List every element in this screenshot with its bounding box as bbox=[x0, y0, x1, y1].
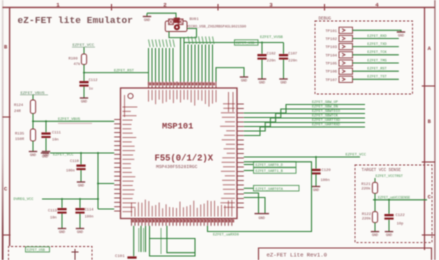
ground under C120 bbox=[312, 186, 320, 188]
wire C122 to ground bbox=[388, 220, 390, 232]
svg-text:1: 1 bbox=[56, 2, 60, 9]
wire to net label EZFET_UART0_D bbox=[244, 164, 254, 166]
wire to capacitor C102 bbox=[261, 43, 263, 54]
svg-text:B: B bbox=[428, 119, 432, 125]
svg-text:EZFET_USB: EZFET_USB bbox=[27, 248, 45, 252]
svg-text:A: A bbox=[428, 46, 432, 52]
svg-text:TP105: TP105 bbox=[325, 63, 337, 67]
svg-text:EZFET_UART0TA: EZFET_UART0TA bbox=[256, 188, 284, 192]
svg-text:EZFET_TMS: EZFET_TMS bbox=[367, 59, 386, 63]
capacitor C120 bbox=[311, 169, 320, 171]
wire VBUS to R135 bbox=[32, 121, 34, 130]
svg-text:GND: GND bbox=[398, 33, 404, 37]
ground under C102 bbox=[258, 78, 266, 80]
svg-text:220k: 220k bbox=[361, 186, 371, 191]
svg-text:EZFET_RXD: EZFET_RXD bbox=[367, 35, 386, 39]
wire C112 to ground bbox=[83, 87, 85, 98]
ground bottom-right of MCU bbox=[255, 213, 270, 215]
wire to capacitor C107 bbox=[283, 43, 285, 54]
svg-text:EZFET_SBWTCK: EZFET_SBWTCK bbox=[312, 115, 339, 119]
wire stub down x166 bbox=[167, 226, 195, 253]
svg-text:TP107: TP107 bbox=[325, 79, 337, 83]
sheet frame inner left line bbox=[9, 7, 11, 246]
ground under C111 bbox=[42, 151, 50, 153]
capacitor C110 bbox=[57, 208, 66, 210]
resistor R100 bbox=[81, 54, 86, 65]
svg-text:MSP430F5528IRGC: MSP430F5528IRGC bbox=[156, 164, 198, 170]
svg-text:3: 3 bbox=[269, 2, 273, 9]
wire to capacitor C101 bbox=[133, 226, 135, 256]
svg-text:C107: C107 bbox=[288, 53, 297, 57]
svg-text:EZFET_VCC: EZFET_VCC bbox=[53, 153, 74, 157]
svg-text:R121: R121 bbox=[361, 183, 371, 187]
wire to net label EZFET_UART1_B bbox=[244, 170, 254, 172]
wire net EZFET_USB horizontal bbox=[184, 42, 284, 44]
svg-text:GND: GND bbox=[81, 99, 87, 103]
svg-text:TP106: TP106 bbox=[325, 71, 337, 75]
wire R100 to node bbox=[83, 65, 85, 81]
wire bundle group1 USB data nets bbox=[149, 40, 175, 82]
resistor R135 bbox=[30, 129, 35, 141]
svg-text:EZFET_VBUS: EZFET_VBUS bbox=[58, 118, 81, 122]
svg-text:R135: R135 bbox=[15, 133, 25, 137]
svg-text:C113: C113 bbox=[48, 210, 57, 214]
small note text under VBUS wire bbox=[58, 122, 92, 124]
wire loop to lower component bbox=[150, 226, 196, 256]
svg-text:C: C bbox=[4, 187, 8, 193]
wire net EZFET_SBW_UP bbox=[244, 105, 365, 114]
wire VCC vertical bus x98 bbox=[97, 153, 99, 209]
capacitor C107 bbox=[279, 54, 288, 56]
frame row tick left B-C bbox=[3, 116, 11, 118]
frame row tick right A-B bbox=[422, 85, 435, 87]
usb connector BU01 bbox=[165, 18, 187, 32]
svg-text:C114: C114 bbox=[85, 209, 95, 213]
svg-text:TP101: TP101 bbox=[325, 30, 337, 34]
svg-text:C: C bbox=[428, 195, 432, 201]
svg-text:eZ-FET Lite Rev1.0: eZ-FET Lite Rev1.0 bbox=[267, 252, 328, 259]
wire C109 to ground bbox=[80, 170, 82, 182]
svg-text:EZFET_VCC: EZFET_VCC bbox=[346, 154, 367, 158]
wire C111 to ground bbox=[45, 138, 47, 151]
svg-text:BU01: BU01 bbox=[190, 18, 200, 22]
mcu top pin stubs and numbers bbox=[149, 82, 217, 89]
ground under C113 bbox=[76, 228, 84, 230]
wire VCC bus to MCU pin row2 bbox=[98, 208, 114, 210]
frame column tick 3-4 bbox=[324, 4, 326, 11]
resistor R121 bbox=[372, 182, 377, 193]
wire net EZFET_VCC to MCU bbox=[50, 152, 114, 154]
svg-text:47k: 47k bbox=[74, 62, 82, 67]
svg-text:C122: C122 bbox=[396, 214, 406, 218]
wire sense to R122 bbox=[374, 200, 376, 212]
capacitor C101 bbox=[127, 256, 136, 258]
svg-text:DEBUG: DEBUG bbox=[319, 18, 332, 22]
net label box EZFET_UART1_B bbox=[254, 168, 297, 174]
svg-text:EZFET_SBW_UP: EZFET_SBW_UP bbox=[312, 101, 338, 105]
net label box EZFET_UART0TA bbox=[254, 185, 300, 191]
svg-text:2: 2 bbox=[163, 2, 167, 9]
ground under C107 bbox=[279, 78, 287, 80]
target vcc sense dashed box bbox=[355, 165, 432, 243]
svg-text:C110: C110 bbox=[70, 160, 79, 164]
wire USB D+ vertical bbox=[180, 38, 182, 82]
svg-text:eZ-FET lite Emulator: eZ-FET lite Emulator bbox=[18, 15, 134, 26]
wire EZFET_VCC to R100 bbox=[83, 47, 85, 54]
mcu left pin stubs bbox=[114, 120, 120, 212]
wire MCU pin to ground 1 bbox=[244, 193, 259, 213]
svg-text:GND: GND bbox=[258, 217, 264, 221]
wire R124 to VBUS net bbox=[32, 114, 34, 122]
svg-text:10p: 10p bbox=[397, 223, 405, 227]
vertical net label smudges below MCU bbox=[138, 228, 140, 252]
capacitor C109 bbox=[76, 165, 85, 167]
svg-text:GND: GND bbox=[241, 78, 247, 82]
wire R135 to ground bbox=[32, 141, 34, 151]
capacitor C111 bbox=[41, 132, 50, 134]
sheet frame inner right line bbox=[424, 7, 426, 250]
wire TP104 net bbox=[353, 54, 399, 56]
svg-text:100n: 100n bbox=[85, 216, 94, 220]
frame column tick 2-3 bbox=[217, 4, 219, 11]
mcu top pin number band bbox=[148, 82, 214, 85]
svg-text:24R: 24R bbox=[14, 110, 22, 114]
ground under R135 bbox=[29, 151, 37, 153]
mcu right pin name texts bbox=[220, 92, 235, 207]
wire net EZFET_RST to MCU bundle bbox=[84, 72, 149, 74]
wire C113 to ground bbox=[79, 214, 81, 229]
svg-text:GND: GND bbox=[59, 230, 65, 234]
svg-text:EZFET_RST: EZFET_RST bbox=[114, 69, 135, 73]
svg-text:GND: GND bbox=[30, 153, 36, 157]
capacitor C112 bbox=[79, 81, 88, 83]
svg-text:TP102: TP102 bbox=[325, 38, 337, 42]
wire DVREG to C113 bbox=[79, 199, 81, 208]
wire MCU top pin to ground right bbox=[216, 68, 244, 82]
svg-text:220k: 220k bbox=[362, 217, 372, 222]
wire net EZFET_SBWTDIO bbox=[244, 114, 365, 123]
wire TP101 net bbox=[353, 29, 399, 31]
svg-text:EZFET_VCCTRGT: EZFET_VCCTRGT bbox=[376, 175, 403, 179]
ground under C109 bbox=[77, 181, 85, 183]
capacitor C102 bbox=[257, 54, 266, 56]
ground under R122 bbox=[371, 231, 379, 233]
wire TP102 net bbox=[353, 38, 399, 40]
svg-text:TARGET VCC SENSE: TARGET VCC SENSE bbox=[362, 169, 402, 173]
svg-text:EZFET_TST: EZFET_TST bbox=[367, 76, 387, 80]
ground in debug box bbox=[397, 31, 405, 33]
mcu bottom pin number band bbox=[131, 219, 233, 222]
svg-text:MSP101: MSP101 bbox=[162, 122, 193, 132]
svg-text:EZFET_USB: EZFET_USB bbox=[236, 42, 254, 46]
wire label to R121 bbox=[374, 178, 376, 182]
wire VCC to C109 bbox=[80, 153, 82, 164]
resistor R122 bbox=[372, 212, 377, 223]
svg-text:GND: GND bbox=[386, 233, 392, 237]
wire vertical net 1 below MCU bbox=[140, 226, 142, 252]
wire vertical net 2 below MCU bbox=[145, 226, 147, 252]
wire net EZFET_VBUS horizontal bbox=[33, 120, 114, 122]
svg-text:GND: GND bbox=[144, 18, 150, 22]
wire C102 to ground bbox=[261, 60, 263, 79]
svg-text:EZFET_SBW_DN: EZFET_SBW_DN bbox=[312, 106, 338, 110]
net label box in host esd area bbox=[26, 247, 50, 252]
svg-text:1u: 1u bbox=[89, 88, 93, 92]
wire TP103 net bbox=[353, 46, 399, 48]
svg-text:GND: GND bbox=[313, 188, 319, 192]
capacitor C113 bbox=[75, 208, 84, 210]
wire net EZFET_VCC right bbox=[244, 156, 360, 158]
wire VBUS to C111 bbox=[45, 121, 47, 132]
svg-text:10n: 10n bbox=[52, 138, 59, 142]
mcu MSP101 body bbox=[121, 88, 238, 219]
wire net EZFET_UARTRXD bbox=[244, 127, 365, 136]
title block box bbox=[259, 248, 432, 260]
svg-text:TP103: TP103 bbox=[325, 46, 337, 50]
frame row tick left C-D bbox=[3, 234, 11, 236]
host esd dashed box bbox=[9, 247, 93, 260]
svg-text:GND: GND bbox=[281, 80, 287, 84]
svg-text:GND: GND bbox=[259, 80, 265, 84]
frame row tick right B-C bbox=[422, 161, 435, 163]
svg-text:TP104: TP104 bbox=[325, 54, 337, 58]
wire to net label EZFET_UART0TA bbox=[244, 187, 254, 189]
svg-text:220n: 220n bbox=[288, 60, 297, 64]
wire net EZFET_SBWTCK bbox=[244, 118, 365, 127]
frame column tick 1-2 bbox=[111, 4, 113, 11]
wire R121 to sense net bbox=[374, 193, 376, 199]
resistor R124 bbox=[30, 100, 35, 114]
wire TP106 net bbox=[353, 70, 399, 72]
wire sense to C122 bbox=[388, 200, 390, 214]
wire net EZFET_SBW_DN bbox=[244, 109, 365, 118]
svg-text:EZFET_VUSB: EZFET_VUSB bbox=[260, 36, 284, 40]
net label box EZFET_UART0_D bbox=[254, 162, 297, 168]
svg-text:EZFET_uaVCCSENSE: EZFET_uaVCCSENSE bbox=[378, 197, 410, 201]
wire C120 to ground bbox=[315, 174, 317, 186]
wire VCC to C120 bbox=[315, 157, 317, 169]
svg-text:EZFET_RST: EZFET_RST bbox=[367, 68, 387, 72]
wire MCU pin to ground 2 bbox=[244, 198, 265, 214]
svg-text:EZFET_TXD: EZFET_TXD bbox=[367, 43, 386, 47]
svg-text:C101: C101 bbox=[115, 255, 125, 259]
mcu bottom pin stubs and numbers bbox=[132, 219, 235, 226]
sheet frame top line bbox=[3, 6, 436, 8]
mcu left pin name texts bbox=[123, 95, 138, 212]
wire GND to BU01 shield bbox=[147, 13, 176, 18]
svg-text:GND: GND bbox=[78, 183, 84, 187]
wire VCC bus to MCU pin row1 bbox=[98, 183, 114, 185]
svg-text:GND: GND bbox=[372, 233, 378, 237]
ground under C122 bbox=[385, 231, 393, 233]
wire DVREG to C110 bbox=[61, 199, 63, 208]
svg-text:EZFET_uaRXD0: EZFET_uaRXD0 bbox=[213, 234, 239, 238]
sheet frame outer left line bbox=[2, 0, 4, 260]
svg-text:EZFET_UART1_B: EZFET_UART1_B bbox=[256, 170, 283, 174]
ground under C110 bbox=[58, 228, 66, 230]
mcu pin-1 marker circle bbox=[128, 93, 133, 98]
sheet frame outer right line bbox=[434, 0, 436, 260]
capacitor C122 bbox=[384, 214, 393, 216]
wire USB D- vertical bbox=[183, 38, 185, 82]
wire R122 to ground bbox=[374, 223, 376, 232]
svg-text:100n: 100n bbox=[321, 179, 330, 183]
svg-text:EZFET_SBWTDIO: EZFET_SBWTDIO bbox=[312, 110, 340, 114]
component stub in host esd area bbox=[74, 249, 76, 260]
svg-text:10n: 10n bbox=[50, 217, 57, 221]
svg-text:150R: 150R bbox=[15, 138, 25, 142]
svg-text:C102: C102 bbox=[267, 53, 276, 57]
svg-text:C112: C112 bbox=[89, 79, 98, 83]
svg-text:EZFET_UARTTXD: EZFET_UARTTXD bbox=[312, 119, 340, 123]
svg-text:R122: R122 bbox=[362, 213, 372, 217]
mcu bottom pin name texts bbox=[132, 200, 232, 217]
svg-text:C120: C120 bbox=[322, 169, 332, 173]
svg-text:EZFET_UARTRXD: EZFET_UARTRXD bbox=[312, 124, 340, 128]
svg-text:DVREG_VCC: DVREG_VCC bbox=[14, 198, 35, 202]
svg-text:C111: C111 bbox=[52, 131, 62, 135]
wire net EZFET_uaRXD route bbox=[208, 162, 312, 232]
frame row tick right C-D bbox=[422, 234, 435, 236]
ground right of usb caps bbox=[240, 76, 248, 78]
net label box EZFET_USB bbox=[235, 40, 259, 45]
svg-text:B: B bbox=[4, 45, 8, 51]
svg-text:F55(0/1/2)X: F55(0/1/2)X bbox=[155, 154, 214, 164]
debug connector dashed box bbox=[315, 21, 413, 94]
wire C107 to ground bbox=[283, 60, 285, 79]
svg-text:100n: 100n bbox=[66, 169, 75, 173]
svg-text:GND: GND bbox=[42, 154, 48, 158]
svg-text:4: 4 bbox=[375, 2, 379, 9]
wire net EZFET_VCCSENSE bbox=[373, 199, 427, 201]
wire TP101 to ground bbox=[399, 30, 401, 32]
ground near BU01 bbox=[146, 13, 148, 16]
svg-text:R100: R100 bbox=[69, 58, 79, 62]
ground under C112 bbox=[80, 97, 88, 99]
mcu right pin stubs bbox=[237, 104, 244, 208]
svg-text:220n: 220n bbox=[267, 60, 276, 64]
wire TP105 net bbox=[353, 62, 399, 64]
wire BU01 left pin down bbox=[169, 32, 197, 38]
wire net EZFET_UARTTXD bbox=[244, 123, 365, 132]
svg-text:R124: R124 bbox=[14, 104, 24, 108]
svg-text:EZFET_TCK: EZFET_TCK bbox=[367, 51, 387, 55]
wire label to R124 bbox=[32, 95, 34, 100]
wire net DVREG_VCC horizontal bbox=[42, 198, 98, 200]
svg-text:GND: GND bbox=[77, 230, 83, 234]
wire bundle group2 crystal nets bbox=[188, 37, 214, 82]
ground left of EZFET_VCC label bbox=[41, 152, 49, 154]
wire C110 to ground bbox=[61, 214, 63, 229]
mcu top pin name texts bbox=[149, 90, 217, 107]
wire BU01 right pin bbox=[187, 29, 197, 38]
wire TP107 net bbox=[353, 78, 399, 80]
